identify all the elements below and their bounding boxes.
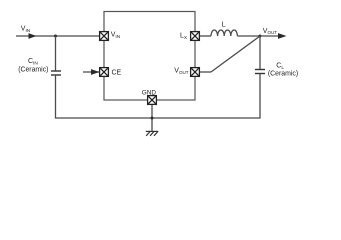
wire inductor to VOUT node (237, 35, 260, 37)
pin LX (191, 32, 200, 41)
pin VIN (100, 32, 109, 41)
svg-text:GND: GND (142, 90, 157, 97)
arrow VOUT output (278, 33, 287, 39)
svg-text:CIN: CIN (28, 58, 38, 66)
pin VOUT (191, 68, 200, 77)
label VOUT output (263, 28, 277, 35)
capacitor CL (255, 70, 265, 74)
svg-text:L: L (222, 22, 226, 29)
wire VOUT pin stub (200, 71, 212, 73)
inductor L (211, 30, 237, 36)
ground (146, 131, 158, 135)
wire LX to inductor (200, 35, 212, 37)
capacitor CIN (51, 71, 61, 75)
wire VOUT output (260, 35, 279, 37)
IC U1 body (104, 12, 195, 101)
wire CIN top (55, 36, 57, 71)
svg-text:LX: LX (180, 33, 188, 41)
label pin LX (180, 33, 188, 41)
wire VIN input (16, 35, 100, 37)
label CL Ceramic (268, 70, 298, 77)
wire GND drop (151, 104, 153, 131)
svg-text:CE: CE (112, 69, 122, 76)
label pin VIN (111, 31, 121, 39)
label pin GND (142, 90, 157, 97)
svg-text:(Ceramic): (Ceramic) (268, 70, 298, 77)
svg-text:VOUT: VOUT (174, 68, 188, 75)
pin CE (100, 68, 109, 77)
label VIN input (21, 25, 31, 33)
wire CIN bottom (56, 75, 153, 118)
svg-text:(Ceramic): (Ceramic) (18, 67, 48, 74)
wire CE stub (83, 71, 100, 73)
wire CL top (259, 36, 261, 70)
wire diagonal VOUT pin to node (211, 36, 260, 72)
label CIN (28, 58, 38, 66)
node VIN junction (54, 35, 57, 38)
pin GND (148, 96, 157, 105)
label pin VOUT (174, 68, 188, 75)
wire CL bottom (152, 74, 260, 119)
label inductor L (222, 22, 226, 29)
svg-text:VIN: VIN (111, 31, 121, 39)
label CL (276, 62, 284, 70)
label CIN Ceramic (18, 67, 48, 74)
svg-text:VOUT: VOUT (263, 28, 277, 35)
node GND junction (151, 117, 154, 120)
label pin CE (112, 69, 122, 76)
arrow VIN input (29, 33, 37, 39)
svg-text:VIN: VIN (21, 25, 31, 33)
node VOUT junction (259, 35, 262, 38)
arrow CE input (91, 69, 99, 75)
